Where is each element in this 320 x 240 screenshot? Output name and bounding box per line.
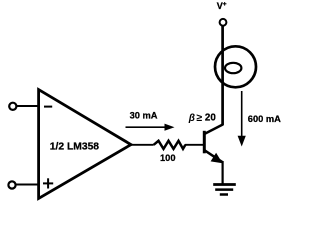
svg-text:600 mA: 600 mA [248,114,281,124]
svg-text:1/2 LM358: 1/2 LM358 [50,141,99,152]
svg-text:β: β [188,113,195,124]
svg-text:≥: ≥ [196,112,202,124]
svg-text:100: 100 [160,153,176,163]
svg-text:+: + [223,1,227,8]
svg-text:20: 20 [205,113,216,124]
svg-text:30 mA: 30 mA [130,111,158,121]
